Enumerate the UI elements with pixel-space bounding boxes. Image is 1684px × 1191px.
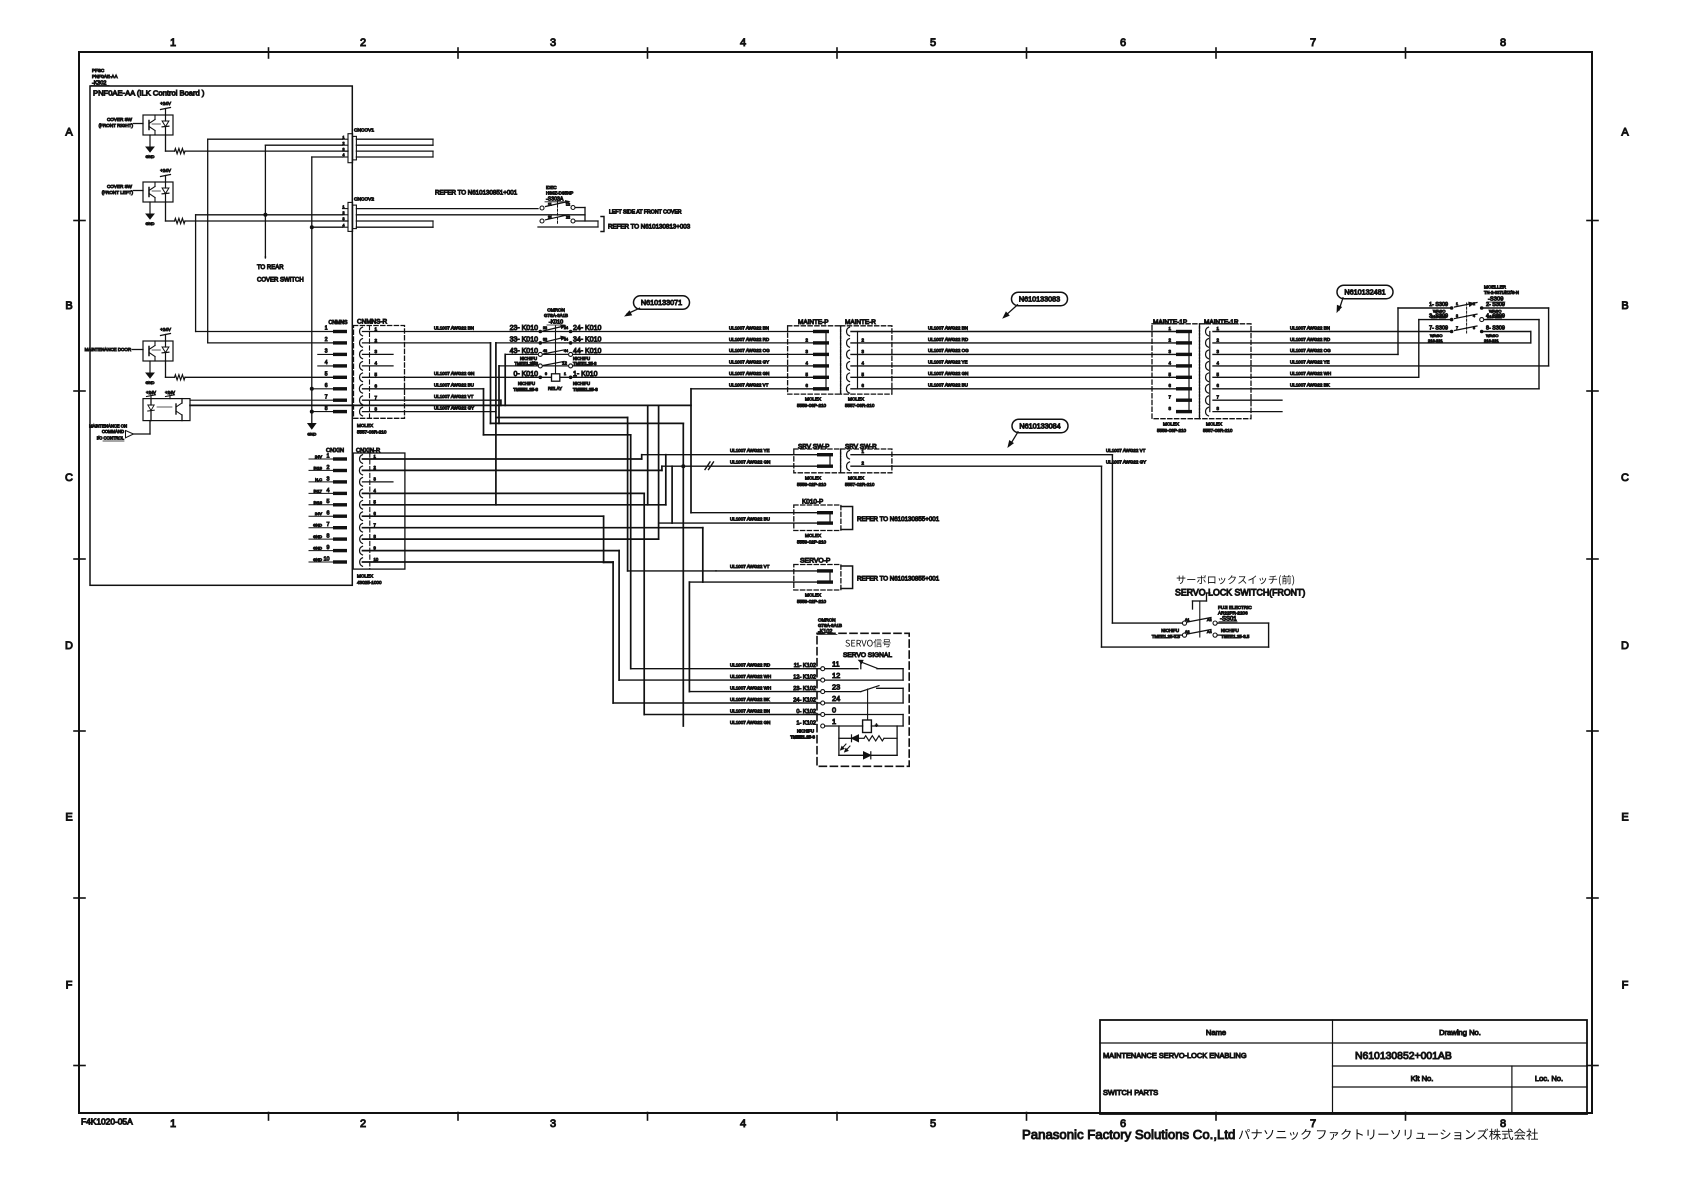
junction GN net	[681, 464, 685, 468]
svg-text:UL1007 AWG22 GN: UL1007 AWG22 GN	[928, 371, 968, 376]
svg-text:1: 1	[1456, 302, 1458, 306]
LED D1	[852, 735, 859, 742]
svg-text:4: 4	[740, 1118, 746, 1130]
svg-text:NICHIFU: NICHIFU	[520, 356, 537, 361]
svg-text:UL1007 AWG22 YE: UL1007 AWG22 YE	[928, 360, 968, 365]
svg-text:UL1007 AWG22 GN: UL1007 AWG22 GN	[729, 371, 769, 376]
wire MAINTE-R pin1 to MAINTE-1P	[851, 331, 1176, 333]
wire GY net to SERVO-P	[627, 418, 629, 571]
K102 coil row wire	[825, 725, 863, 727]
junction on CNCOV2 pin2 wire	[263, 213, 267, 217]
svg-text:UL1007 AWG22 OG: UL1007 AWG22 OG	[729, 348, 770, 353]
svg-text:2: 2	[360, 37, 366, 49]
svg-text:7: 7	[327, 522, 330, 528]
callout N610133071	[634, 296, 690, 310]
wire CNMNS pin6	[312, 388, 333, 390]
wire R3 to CNMNS pin5	[185, 376, 333, 378]
svg-text:22: 22	[566, 216, 570, 220]
svg-text:+24V: +24V	[160, 168, 172, 173]
wire CNXIN-R pin4 to K102 pin0	[363, 492, 645, 494]
wire CNMNS pin7	[190, 399, 333, 401]
title block	[1100, 1020, 1587, 1114]
wire YE to S309 pin2	[1213, 365, 1549, 367]
svg-text:(FRONT LEFT): (FRONT LEFT)	[102, 190, 134, 195]
svg-text:REFER TO N610130855+001: REFER TO N610130855+001	[857, 576, 940, 583]
svg-text:1: 1	[343, 205, 345, 209]
wire PC3 emitter to resistor	[165, 361, 167, 377]
svg-text:3: 3	[375, 349, 378, 354]
svg-text:43- K010: 43- K010	[510, 348, 539, 355]
svg-text:34- K010: 34- K010	[573, 336, 602, 343]
svg-text:5: 5	[325, 372, 328, 378]
svg-text:COVER SWITCH: COVER SWITCH	[257, 278, 304, 284]
svg-text:3: 3	[343, 217, 345, 221]
wire CNMNS pin4 stub	[318, 365, 333, 367]
svg-text:IN16: IN16	[314, 500, 323, 505]
wire CNCOV2 pin2 to CNMNS pin1	[196, 214, 343, 216]
svg-text:UL1007 AWG22 BN: UL1007 AWG22 BN	[1290, 325, 1330, 330]
svg-text:5557-08R-210: 5557-08R-210	[357, 430, 387, 435]
svg-text:F: F	[1622, 980, 1629, 992]
svg-text:D: D	[1621, 640, 1629, 652]
svg-text:IN17: IN17	[314, 488, 323, 493]
svg-text:UL1007 AWG22 GN: UL1007 AWG22 GN	[730, 460, 770, 465]
svg-text:23- K010: 23- K010	[510, 325, 539, 332]
svg-text:F: F	[66, 980, 73, 992]
svg-text:TN-2-8371/EZ/S-N: TN-2-8371/EZ/S-N	[1484, 290, 1519, 295]
relay K010 contacts	[539, 330, 543, 334]
svg-text:A4: A4	[1207, 630, 1212, 634]
photocoupler PC1 (COVER SW FRONT RIGHT input)	[143, 115, 173, 135]
resistor R3	[175, 375, 186, 380]
wire MAINTE-R pin6 to MAINTE-1P	[851, 388, 1176, 390]
svg-text:8: 8	[1500, 1118, 1506, 1130]
wire net GN row5	[363, 376, 814, 378]
svg-text:33: 33	[543, 337, 547, 341]
svg-text:SERVO LOCK SWITCH(FRONT): SERVO LOCK SWITCH(FRONT)	[1175, 588, 1305, 598]
svg-text:8: 8	[375, 406, 378, 411]
svg-text:PNF0AE-AA (ILK Control Board ): PNF0AE-AA (ILK Control Board )	[93, 89, 205, 98]
wire VT to MAINTE-P pin6 and K010-P pin1	[690, 389, 692, 513]
svg-text:5559-06P-210: 5559-06P-210	[797, 403, 827, 408]
svg-text:12- K102: 12- K102	[793, 675, 816, 681]
svg-text:Drawing No.: Drawing No.	[1439, 1028, 1481, 1037]
buffer driver symbol	[126, 431, 134, 438]
svg-text:OMRON: OMRON	[818, 618, 836, 623]
svg-text:MOLEX: MOLEX	[805, 533, 821, 538]
svg-text:UL1007 AWG22 RD: UL1007 AWG22 RD	[1290, 337, 1331, 342]
svg-text:3: 3	[550, 1118, 556, 1130]
K102 contact 23-24	[825, 691, 861, 693]
svg-text:0: 0	[545, 372, 547, 376]
svg-text:44: 44	[564, 349, 568, 353]
svg-text:+24V: +24V	[160, 327, 172, 332]
wire BN to S309 pin7	[1213, 331, 1450, 333]
wire S303A contacts 21-22 pair	[576, 220, 599, 222]
relay K010 mechanical link	[555, 326, 557, 374]
svg-text:UL1007 AWG22 BK: UL1007 AWG22 BK	[1290, 383, 1330, 388]
svg-text:7: 7	[1456, 326, 1458, 330]
svg-text:A: A	[65, 127, 73, 139]
svg-text:(FRONT RIGHT): (FRONT RIGHT)	[99, 123, 134, 128]
svg-text:MOLEX: MOLEX	[357, 423, 373, 428]
svg-text:UL1007 AWG22 BU: UL1007 AWG22 BU	[730, 517, 770, 522]
svg-text:GND: GND	[307, 432, 316, 437]
svg-text:1: 1	[375, 326, 378, 331]
svg-text:MOLEX: MOLEX	[848, 397, 864, 402]
svg-text:COVER SW: COVER SW	[107, 117, 133, 122]
svg-text:+24V: +24V	[160, 101, 172, 106]
svg-text:GND: GND	[313, 546, 322, 551]
wire BK to S309 pin4	[1213, 388, 1539, 390]
svg-text:UL1007 AWG22 OG: UL1007 AWG22 OG	[928, 348, 969, 353]
wire VT net horizontal	[190, 404, 691, 406]
svg-text:MAINTE-1R: MAINTE-1R	[1204, 319, 1239, 326]
wire CNCOV1 pin4 to CNCOV2 pin4 bus	[312, 156, 343, 158]
svg-text:43025-1000: 43025-1000	[357, 580, 382, 585]
svg-text:Kit No.: Kit No.	[1411, 1074, 1434, 1083]
photocoupler PC2 (COVER SW FRONT LEFT input)	[143, 182, 173, 202]
svg-text:NICHIFU: NICHIFU	[1161, 628, 1179, 633]
svg-text:UL1007 AWG22 WH: UL1007 AWG22 WH	[1290, 371, 1331, 376]
svg-text:3: 3	[1456, 314, 1458, 318]
wire GY to SS01 loop	[1101, 466, 1103, 647]
wire MAINTE-R pin5 to MAINTE-1P	[851, 376, 1176, 378]
svg-text:MOLEX: MOLEX	[805, 593, 821, 598]
ground symbol of CNMNS bus	[308, 424, 316, 430]
wire buffer to PC4	[134, 433, 151, 435]
svg-text:24: 24	[832, 694, 840, 703]
svg-text:UL1007 AWG22 VT: UL1007 AWG22 VT	[434, 394, 474, 399]
svg-text:TMEE1.25-3: TMEE1.25-3	[573, 387, 598, 392]
svg-text:5: 5	[930, 1118, 936, 1130]
svg-text:1- S309: 1- S309	[1429, 302, 1448, 308]
svg-text:2: 2	[325, 337, 328, 343]
svg-text:COMMAND: COMMAND	[102, 429, 124, 434]
svg-text:7: 7	[1310, 37, 1316, 49]
svg-text:UL1007 AWG22 OG: UL1007 AWG22 OG	[1290, 348, 1331, 353]
svg-text:4: 4	[325, 360, 328, 366]
svg-text:SERVO-P: SERVO-P	[800, 558, 831, 565]
svg-text:GND: GND	[313, 557, 322, 562]
svg-text:G7SA-3A1B: G7SA-3A1B	[818, 623, 842, 628]
wire R1 to CNCOV1 pin3	[185, 150, 348, 152]
svg-text:MAINTE-P: MAINTE-P	[798, 319, 829, 326]
svg-text:MOLEX: MOLEX	[805, 397, 821, 402]
svg-text:5559-02P-210: 5559-02P-210	[797, 482, 827, 487]
wire net row4 contacts to MAINTE-P pin4	[499, 365, 538, 367]
svg-text:UL1007 AWG22 BK: UL1007 AWG22 BK	[730, 697, 770, 702]
wire bus to CNMNS pins6/8 and ground	[311, 227, 313, 423]
svg-text:NICHIFU: NICHIFU	[573, 381, 590, 386]
wire net row3 contacts to MAINTE-P pin3	[505, 353, 538, 355]
svg-text:MOLEX: MOLEX	[1163, 422, 1179, 427]
svg-text:REFER TO N610130813+003: REFER TO N610130813+003	[608, 224, 691, 231]
svg-text:SWITCH PARTS: SWITCH PARTS	[1103, 1088, 1158, 1097]
wire 43-K010 branch	[504, 354, 506, 405]
svg-text:6: 6	[1120, 37, 1126, 49]
svg-text:CNMNS-R: CNMNS-R	[357, 319, 388, 326]
wire net BU row6	[363, 388, 484, 390]
diode D2	[864, 752, 871, 759]
svg-text:5: 5	[930, 37, 936, 49]
svg-text:A: A	[1621, 127, 1629, 139]
svg-text:Loc. No.: Loc. No.	[1535, 1074, 1563, 1083]
svg-text:7: 7	[325, 394, 328, 400]
wire PC1 emitter to resistor	[165, 135, 167, 151]
svg-text:MAINTENANCE SERVO-LOCK ENABLIN: MAINTENANCE SERVO-LOCK ENABLING	[1103, 1051, 1247, 1060]
wire CNMNS-R pin4 stub	[363, 365, 394, 367]
svg-text:PFSC: PFSC	[92, 68, 105, 73]
wire K010-P pin1 feed	[691, 512, 817, 514]
ILK control board PNF0AE-AA -K302 outline	[90, 86, 352, 585]
svg-text:UL1007 AWG22 VT: UL1007 AWG22 VT	[729, 383, 769, 388]
svg-text:TMEE1.25-3: TMEE1.25-3	[573, 361, 597, 366]
svg-text:1: 1	[325, 326, 328, 332]
svg-text:24: 24	[564, 326, 568, 330]
svg-text:Panasonic Factory Solutions Co: Panasonic Factory Solutions Co.,Ltd	[1022, 1127, 1235, 1142]
wire CNMNS-R pin3 stub	[363, 353, 394, 355]
svg-text:7: 7	[375, 395, 378, 400]
wire YE feed to SRV SW-P pin1	[642, 454, 817, 456]
crossover slashes	[705, 462, 710, 470]
svg-text:MOLEX: MOLEX	[1206, 422, 1222, 427]
switch S309 contacts	[1450, 306, 1454, 310]
resistor R2	[175, 218, 186, 223]
svg-text:UL1007 AWG22 VT: UL1007 AWG22 VT	[730, 564, 770, 569]
svg-text:CNMNS: CNMNS	[328, 320, 348, 326]
svg-text:1: 1	[564, 372, 566, 376]
svg-text:7- S309: 7- S309	[1429, 326, 1448, 332]
svg-text:MAINTE-R: MAINTE-R	[845, 319, 876, 326]
svg-text:4: 4	[375, 361, 378, 366]
switch SS01 contacts	[1182, 621, 1186, 625]
svg-text:LEFT SIDE AT FRONT COVER: LEFT SIDE AT FRONT COVER	[609, 210, 682, 216]
svg-text:216-221: 216-221	[1431, 314, 1446, 319]
wire CNXIN-R pin8	[363, 538, 659, 540]
photocoupler PC3 (MAINTENANCE DOOR input)	[143, 341, 173, 361]
callout N610133084	[1012, 419, 1068, 433]
switch S303A (IDEC HS9Z-DS5NP)	[540, 206, 544, 210]
svg-text:23: 23	[543, 326, 547, 330]
svg-text:UL1007 AWG22 WH: UL1007 AWG22 WH	[730, 685, 771, 690]
svg-text:2: 2	[375, 338, 378, 343]
svg-text:GND: GND	[313, 534, 322, 539]
svg-text:E: E	[65, 812, 72, 824]
svg-text:1: 1	[170, 1118, 176, 1130]
wire GN tap to K010-P	[671, 466, 673, 523]
wire MAINTE-1R pin7 stub	[1213, 399, 1282, 401]
wire MAINTE-R pin4 to MAINTE-1P	[851, 365, 1176, 367]
K102 row0 wire	[825, 714, 903, 716]
wire K010-P pin2 feed	[659, 522, 817, 524]
bracket K010-P	[841, 507, 853, 530]
SS01 stub A4	[1217, 634, 1228, 636]
svg-text:RELAY: RELAY	[548, 386, 562, 391]
svg-text:216-221: 216-221	[1484, 338, 1499, 343]
svg-text:GND: GND	[146, 380, 155, 385]
svg-text:MOLEX: MOLEX	[357, 574, 373, 579]
wire GN feed to SRV SW-P pin2	[662, 465, 817, 467]
svg-text:PNF0AE-AA: PNF0AE-AA	[92, 74, 118, 79]
wire PC2 input	[134, 190, 144, 192]
svg-text:5557-08R-210: 5557-08R-210	[1203, 428, 1233, 433]
relay K010 coil	[552, 374, 560, 381]
callout N610132481	[1337, 285, 1393, 299]
svg-text:8: 8	[1500, 37, 1506, 49]
relay K102 pin terminals	[821, 667, 825, 671]
svg-text:8- S309: 8- S309	[1486, 326, 1505, 332]
svg-text:12: 12	[832, 671, 840, 680]
wire SS01 A2 return	[1217, 622, 1268, 624]
svg-text:5557-02R-210: 5557-02R-210	[845, 482, 875, 487]
svg-text:CNCOV2: CNCOV2	[354, 196, 374, 202]
svg-text:5559-08P-210: 5559-08P-210	[1157, 428, 1187, 433]
svg-text:NICHIFU: NICHIFU	[573, 356, 590, 361]
svg-text:1: 1	[170, 37, 176, 49]
wire CNXIN-R pin1 to SRV SW-P pin1	[363, 458, 642, 460]
svg-text:11: 11	[832, 660, 840, 669]
wire SRV SW-R pin2 out GY	[851, 465, 1102, 467]
cable from CNCOV2 pins1-2 to S303A	[356, 208, 538, 210]
svg-text:NICHIFU: NICHIFU	[797, 729, 814, 734]
svg-text:A1: A1	[1185, 618, 1190, 622]
photocoupler PC4 (MAINTENANCE ON COMMAND)	[143, 399, 190, 421]
svg-text:B: B	[1621, 300, 1628, 312]
cable from CNCOV1 pins1-2	[356, 138, 433, 140]
svg-text:21: 21	[548, 216, 552, 220]
wire CNCOV1 pin1 to CNMNS pin2	[208, 138, 343, 140]
svg-text:33- K010: 33- K010	[510, 336, 539, 343]
resistor R4	[864, 736, 884, 741]
svg-text:A2: A2	[1207, 618, 1212, 622]
relay K102 enclosure	[817, 633, 909, 766]
svg-text:TMEE1.25-3: TMEE1.25-3	[514, 361, 538, 366]
svg-text:N610130852+001AB: N610130852+001AB	[1355, 1051, 1452, 1062]
svg-text:UL1007 AWG22 YE: UL1007 AWG22 YE	[730, 448, 770, 453]
svg-text:6: 6	[327, 511, 330, 517]
bracket SERVO-P	[841, 566, 853, 589]
svg-text:MOELLER: MOELLER	[1484, 285, 1507, 290]
svg-text:7: 7	[1310, 1118, 1316, 1130]
wire VT to SS01 A1	[1111, 455, 1113, 623]
svg-text:5559-02P-210: 5559-02P-210	[797, 599, 827, 604]
svg-text:UL1007 AWG22 BN: UL1007 AWG22 BN	[928, 325, 968, 330]
bracket for refer note	[601, 217, 604, 232]
junction CNCOV2 pin4	[310, 225, 314, 229]
svg-text:5559-02P-210: 5559-02P-210	[797, 540, 827, 545]
svg-text:MAINTE-1P: MAINTE-1P	[1153, 319, 1187, 326]
wire 11-K010 branch	[498, 366, 500, 424]
svg-text:10: 10	[374, 557, 379, 562]
svg-text:N610132481: N610132481	[1344, 288, 1385, 297]
wire PC1 input	[134, 123, 144, 125]
wire PC3 input	[132, 349, 143, 351]
wire MAINTE-R pin3 to MAINTE-1P	[851, 353, 1176, 355]
svg-text:+24V: +24V	[165, 390, 175, 395]
svg-text:I/O CONTROL: I/O CONTROL	[97, 436, 125, 441]
wire CNXIN-R pin5 feed	[363, 504, 666, 506]
svg-text:UL1007 AWG22 BN: UL1007 AWG22 BN	[729, 325, 769, 330]
wire SERVO-P pin2 to K102 pin23	[689, 581, 817, 583]
wire net VT row7	[363, 399, 501, 401]
svg-text:4: 4	[1473, 314, 1475, 318]
svg-text:UL1007 AWG22 BN: UL1007 AWG22 BN	[434, 325, 474, 330]
wire net BN row1	[363, 331, 814, 333]
junction CNMNS pin6	[310, 387, 314, 391]
svg-text:5557-06R-210: 5557-06R-210	[845, 403, 875, 408]
svg-text:GND: GND	[146, 154, 155, 159]
svg-text:OMRON: OMRON	[547, 308, 565, 313]
svg-text:0: 0	[832, 706, 836, 715]
svg-text:24V: 24V	[315, 511, 322, 516]
svg-text:GND: GND	[313, 523, 322, 528]
svg-text:6: 6	[325, 383, 328, 389]
svg-text:IDEC: IDEC	[546, 185, 557, 190]
cable from S303A to front cover	[538, 226, 598, 228]
wire net RD row2	[363, 342, 491, 344]
wire 33-K010 feed from CNXIN-R pin5	[495, 343, 497, 505]
svg-text:SERVO SIGNAL: SERVO SIGNAL	[843, 652, 892, 659]
wire PC2 emitter to resistor	[165, 202, 167, 221]
svg-text:2: 2	[1473, 302, 1475, 306]
svg-text:24- K102: 24- K102	[793, 698, 816, 704]
wire SRV SW-R pin1 out VT	[851, 454, 1112, 456]
svg-text:UL1007 AWG22 GY: UL1007 AWG22 GY	[729, 360, 769, 365]
svg-text:NICHIFU: NICHIFU	[518, 381, 535, 386]
company name japanese	[1239, 1128, 1538, 1140]
svg-text:6: 6	[375, 384, 378, 389]
svg-text:12: 12	[562, 360, 567, 365]
svg-text:3: 3	[343, 147, 345, 151]
svg-text:TMEE1.25-3: TMEE1.25-3	[790, 735, 815, 740]
svg-text:UL1007 AWG22 GN: UL1007 AWG22 GN	[434, 371, 474, 376]
junction CNMNS pin8	[310, 410, 314, 414]
wire R2 to CNCOV2 pin3	[185, 220, 348, 222]
svg-text:UL1007 AWG22 VT: UL1007 AWG22 VT	[1106, 448, 1146, 453]
svg-text:2- S309: 2- S309	[1486, 302, 1505, 308]
svg-text:MAINTENANCE DOOR: MAINTENANCE DOOR	[85, 347, 131, 352]
cable from CNCOV2 pins3-4	[356, 220, 433, 222]
wire S303A contact 12 link	[576, 207, 586, 209]
svg-text:34: 34	[564, 337, 568, 341]
svg-text:UL1007 AWG22 YE: UL1007 AWG22 YE	[1290, 360, 1330, 365]
wire OG to S309 pin1	[1213, 353, 1398, 355]
svg-text:REFER TO N610130851+001: REFER TO N610130851+001	[435, 190, 518, 197]
wire CNXIN-R pin3 stub	[363, 481, 393, 483]
ground symbol PC3	[149, 361, 151, 373]
wire CNXIN-R pin6	[363, 515, 604, 517]
svg-text:3: 3	[325, 349, 328, 355]
svg-text:TO REAR: TO REAR	[257, 265, 284, 271]
svg-text:F4K1020-05A: F4K1020-05A	[81, 1117, 133, 1127]
svg-text:8: 8	[325, 406, 328, 412]
svg-text:A3: A3	[1185, 630, 1190, 634]
svg-text:11: 11	[548, 203, 552, 207]
svg-text:0- K010: 0- K010	[513, 371, 538, 378]
label サーボロックスイッチ(前)	[1177, 575, 1294, 586]
svg-text:N610133084: N610133084	[1019, 422, 1060, 431]
svg-text:0- K102: 0- K102	[796, 709, 816, 715]
svg-text:G7SA-3A1B: G7SA-3A1B	[544, 313, 568, 318]
svg-text:CNCOV1: CNCOV1	[354, 128, 374, 134]
svg-text:Name: Name	[1206, 1028, 1226, 1037]
svg-text:UL1007 AWG22 BN: UL1007 AWG22 BN	[730, 708, 770, 713]
svg-text:MOLEX: MOLEX	[805, 476, 821, 481]
svg-text:B: B	[65, 300, 72, 312]
svg-text:UL1007 AWG22 RD: UL1007 AWG22 RD	[730, 663, 771, 668]
svg-text:216-221: 216-221	[1428, 338, 1443, 343]
